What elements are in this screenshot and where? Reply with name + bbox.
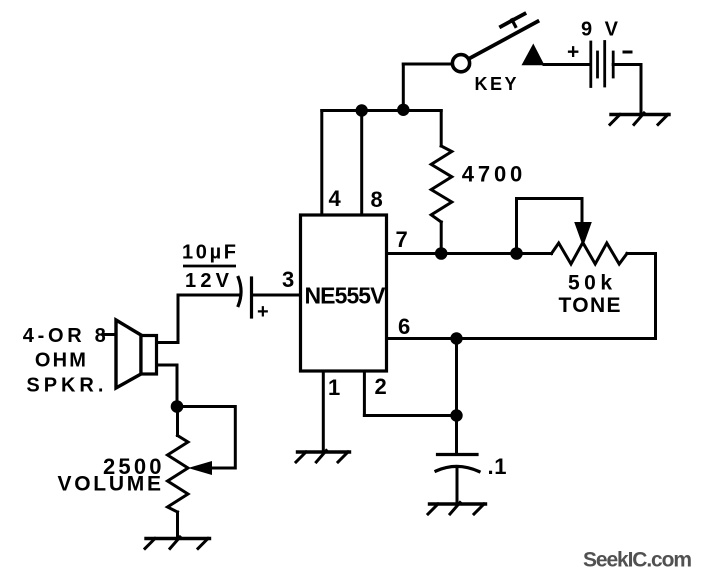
resistor R1 4700 zigzag (431, 146, 452, 222)
wire pin 6 line (387, 337, 656, 340)
resistor R1 4700 bottom lead (440, 222, 443, 254)
speaker LS1 stub (103, 333, 116, 336)
ground volume pot (145, 537, 210, 549)
battery BT1 short plate 1 (596, 52, 599, 77)
node junction bus pin8 (356, 104, 368, 116)
svg-text:1: 1 (328, 375, 340, 400)
node junction speaker volume (171, 400, 184, 413)
wire pin 6 node down to capacitor (455, 339, 458, 453)
wire volume loop (177, 407, 235, 469)
svg-text:+: + (567, 41, 579, 64)
label battery minus (623, 51, 633, 54)
wire battery minus to corner (613, 63, 641, 66)
svg-text:6: 6 (398, 314, 410, 339)
svg-text:SPKR.: SPKR. (26, 375, 103, 397)
potentiometer R3 bottom lead (176, 512, 179, 538)
node junction pin6 (450, 332, 462, 344)
svg-text:TONE: TONE (559, 294, 621, 317)
wire key to battery plus (544, 63, 590, 66)
switch S1 knob post (512, 20, 516, 27)
wire key branch vertical (402, 64, 405, 111)
battery BT1 long plate 1 (589, 42, 592, 87)
wire capacitor to ground (456, 467, 459, 503)
svg-text:SeekIC.com: SeekIC.com (583, 549, 692, 572)
svg-text:.1: .1 (488, 454, 507, 479)
node junction pin2 cap (450, 409, 462, 421)
wire 50k right end down to pin 6 line (654, 254, 657, 339)
svg-text:10µF: 10µF (182, 242, 236, 264)
potentiometer R2 wiper arrow (574, 222, 592, 247)
switch S1 key lever arm (469, 22, 537, 59)
capacitor C1 10uF curved plate (238, 278, 241, 306)
label value divider bar (183, 265, 236, 268)
wire pin 2 down (363, 371, 366, 416)
svg-text:9 V: 9 V (581, 19, 619, 41)
wire speaker bottom down to node (176, 365, 179, 407)
capacitor C2 .1 top plate (438, 453, 478, 456)
potentiometer R3 wiper arrow (188, 461, 212, 475)
svg-text:3: 3 (282, 267, 294, 292)
svg-text:50k: 50k (568, 272, 612, 295)
svg-text:12V: 12V (185, 270, 230, 292)
potentiometer R2 50k zigzag (552, 243, 628, 265)
wire down to speaker top terminal (177, 295, 180, 343)
wire pin 4 to bus (320, 111, 323, 216)
svg-text:8: 8 (371, 187, 383, 212)
resistor R1 4700 top lead (440, 111, 443, 147)
ground capacitor C2 (428, 503, 486, 515)
wire capacitor C1 left lead (178, 294, 239, 297)
battery BT1 long plate 2 (603, 42, 606, 87)
svg-text:OHM: OHM (35, 350, 86, 372)
wire 50k wiper loop (517, 199, 583, 254)
capacitor C1 10uF straight plate (250, 278, 253, 317)
wire speaker top terminal (157, 341, 179, 344)
wire pin 3 to capacitor C1 (253, 294, 301, 297)
node junction resistor pin7 (435, 247, 448, 260)
node junction bus key (397, 104, 409, 116)
wire top supply bus (322, 109, 441, 112)
ground pin 1 (296, 451, 350, 463)
wire speaker bottom terminal (157, 364, 178, 367)
battery BT1 short plate 2 (612, 52, 615, 77)
ground battery (610, 113, 669, 125)
svg-text:4: 4 (329, 186, 342, 211)
svg-text:7: 7 (396, 227, 408, 252)
svg-text:+: + (257, 301, 269, 323)
wire key branch horizontal (403, 63, 452, 66)
node junction 50k left (510, 247, 523, 260)
potentiometer R2 right lead (627, 252, 656, 255)
potentiometer R3 2500 zigzag (168, 436, 189, 513)
svg-text:KEY: KEY (475, 74, 517, 94)
wire pin 2 horizontal to cap node (364, 414, 456, 417)
wire pin 7 line (387, 252, 552, 255)
potentiometer R3 top lead (176, 407, 179, 436)
wire battery down to ground (640, 65, 643, 114)
speaker LS1 driver box (141, 336, 157, 375)
svg-text:2: 2 (375, 374, 387, 399)
wire pin 8 to bus (360, 111, 363, 216)
switch S1 fixed contact triangle (522, 44, 545, 66)
wire pin 1 to ground (322, 371, 325, 451)
switch S1 knob cap bar (501, 14, 525, 27)
speaker LS1 cone (116, 320, 141, 388)
svg-text:NE555V: NE555V (305, 283, 387, 309)
op IC U1 NE555V box (301, 215, 387, 371)
switch S1 key contact circle (452, 55, 469, 72)
capacitor C2 .1 curved plate (436, 466, 479, 471)
